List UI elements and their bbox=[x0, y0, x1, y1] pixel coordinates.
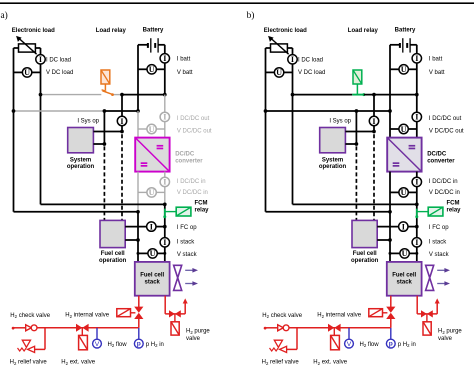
svg-text:I: I bbox=[372, 117, 375, 126]
svg-text:U: U bbox=[276, 68, 282, 77]
svg-text:V stack: V stack bbox=[177, 252, 198, 258]
svg-text:Electronic load: Electronic load bbox=[264, 28, 307, 34]
svg-text:I: I bbox=[402, 222, 405, 231]
svg-text:FCM: FCM bbox=[195, 201, 208, 207]
svg-text:I: I bbox=[163, 178, 166, 187]
svg-text:I DC/DC out: I DC/DC out bbox=[177, 116, 210, 122]
svg-text:I Sys op: I Sys op bbox=[329, 118, 351, 124]
svg-text:H2 relief valve: H2 relief valve bbox=[10, 360, 48, 365]
svg-text:Load relay: Load relay bbox=[348, 28, 379, 34]
svg-text:I batt: I batt bbox=[177, 56, 191, 62]
svg-text:V DC/DC out: V DC/DC out bbox=[177, 129, 212, 135]
svg-text:V DC/DC in: V DC/DC in bbox=[429, 190, 460, 196]
svg-text:I: I bbox=[415, 54, 418, 63]
svg-text:System: System bbox=[322, 157, 343, 163]
svg-text:p: p bbox=[389, 341, 393, 348]
svg-text:operation: operation bbox=[351, 258, 379, 264]
svg-text:V DC load: V DC load bbox=[46, 70, 73, 76]
svg-text:I: I bbox=[163, 54, 166, 63]
svg-text:V stack: V stack bbox=[429, 252, 450, 258]
svg-text:DC/DC: DC/DC bbox=[427, 151, 447, 157]
svg-text:p H2 in: p H2 in bbox=[146, 342, 164, 348]
svg-text:U: U bbox=[401, 65, 407, 74]
svg-text:I stack: I stack bbox=[429, 239, 447, 245]
svg-text:Fuel cell: Fuel cell bbox=[392, 273, 416, 279]
svg-text:I: I bbox=[415, 178, 418, 187]
svg-text:Load relay: Load relay bbox=[96, 28, 127, 34]
svg-text:V DC load: V DC load bbox=[298, 70, 325, 76]
svg-text:H2 ext. valve: H2 ext. valve bbox=[61, 360, 95, 365]
svg-text:U: U bbox=[401, 125, 407, 134]
svg-text:I DC/DC in: I DC/DC in bbox=[429, 179, 458, 185]
svg-text:relay: relay bbox=[195, 208, 210, 214]
svg-text:a): a) bbox=[1, 10, 8, 21]
svg-text:Battery: Battery bbox=[143, 28, 164, 34]
svg-text:V batt: V batt bbox=[429, 70, 445, 76]
svg-text:Battery: Battery bbox=[395, 28, 416, 34]
svg-text:p H2 in: p H2 in bbox=[398, 342, 416, 348]
svg-text:I Sys op: I Sys op bbox=[77, 118, 99, 124]
svg-text:operation: operation bbox=[67, 164, 95, 170]
svg-text:Electronic load: Electronic load bbox=[12, 28, 55, 34]
svg-text:I: I bbox=[120, 117, 123, 126]
svg-text:I: I bbox=[291, 55, 294, 64]
svg-text:DC/DC: DC/DC bbox=[175, 151, 195, 157]
svg-text:converter: converter bbox=[427, 158, 455, 164]
svg-text:I: I bbox=[415, 113, 418, 122]
svg-text:V batt: V batt bbox=[177, 70, 193, 76]
svg-text:converter: converter bbox=[175, 158, 203, 164]
svg-text:I: I bbox=[163, 113, 166, 122]
svg-text:I DC load: I DC load bbox=[46, 57, 71, 63]
svg-text:I FC op: I FC op bbox=[177, 225, 197, 231]
svg-text:H2 purge: H2 purge bbox=[438, 329, 462, 335]
svg-text:U: U bbox=[24, 68, 30, 77]
svg-text:V DC/DC in: V DC/DC in bbox=[177, 190, 208, 196]
svg-text:I batt: I batt bbox=[429, 56, 443, 62]
svg-text:p: p bbox=[137, 341, 141, 348]
svg-text:Fuel cell: Fuel cell bbox=[140, 273, 164, 279]
svg-text:Fuel cell: Fuel cell bbox=[353, 251, 377, 257]
svg-text:System: System bbox=[70, 157, 91, 163]
svg-text:I DC/DC in: I DC/DC in bbox=[177, 179, 206, 185]
svg-text:I: I bbox=[150, 222, 153, 231]
svg-text:stack: stack bbox=[397, 280, 413, 286]
svg-text:U: U bbox=[149, 188, 155, 197]
svg-text:V DC/DC out: V DC/DC out bbox=[429, 129, 464, 135]
svg-text:I: I bbox=[163, 238, 166, 247]
svg-text:V: V bbox=[95, 341, 100, 348]
svg-text:operation: operation bbox=[99, 258, 127, 264]
svg-text:I DC load: I DC load bbox=[298, 57, 323, 63]
svg-text:U: U bbox=[401, 188, 407, 197]
svg-text:I: I bbox=[415, 238, 418, 247]
svg-text:I: I bbox=[39, 55, 42, 64]
svg-text:U: U bbox=[402, 249, 408, 258]
svg-text:H2 flow: H2 flow bbox=[360, 342, 380, 348]
svg-text:I DC/DC out: I DC/DC out bbox=[429, 116, 462, 122]
svg-text:relay: relay bbox=[447, 208, 462, 214]
svg-text:H2 check valve: H2 check valve bbox=[262, 313, 302, 319]
svg-text:H2 purge: H2 purge bbox=[186, 329, 210, 335]
svg-text:H2 check valve: H2 check valve bbox=[10, 313, 50, 319]
svg-text:b): b) bbox=[247, 10, 255, 21]
svg-text:H2 relief valve: H2 relief valve bbox=[262, 360, 300, 365]
svg-text:H2 internal valve: H2 internal valve bbox=[65, 313, 109, 319]
svg-text:valve: valve bbox=[438, 336, 453, 342]
svg-text:U: U bbox=[149, 65, 155, 74]
svg-text:V: V bbox=[347, 341, 352, 348]
svg-text:Fuel cell: Fuel cell bbox=[101, 251, 125, 257]
svg-text:H2 ext. valve: H2 ext. valve bbox=[313, 360, 347, 365]
svg-text:H2 flow: H2 flow bbox=[108, 342, 128, 348]
svg-text:I stack: I stack bbox=[177, 239, 195, 245]
svg-text:valve: valve bbox=[186, 336, 201, 342]
svg-text:U: U bbox=[149, 125, 155, 134]
svg-text:U: U bbox=[150, 249, 156, 258]
svg-text:stack: stack bbox=[145, 280, 161, 286]
svg-text:I FC op: I FC op bbox=[429, 225, 449, 231]
svg-text:H2 internal valve: H2 internal valve bbox=[317, 313, 361, 319]
svg-text:operation: operation bbox=[319, 164, 347, 170]
svg-text:FCM: FCM bbox=[447, 201, 460, 207]
